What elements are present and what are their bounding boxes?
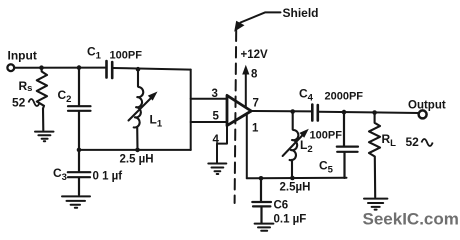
svg-text:Shield: Shield [283,6,319,20]
svg-text:C5: C5 [319,159,334,176]
svg-text:2.5 µH: 2.5 µH [120,154,154,166]
node L1 tap [136,67,141,72]
shield leader arrowhead [234,21,244,32]
capacitor C2 [68,68,91,150]
wire C4 to output terminal [319,112,419,113]
ground (C3) [62,196,90,207]
svg-text:C6: C6 [274,200,289,212]
capacitor C4 [312,105,318,121]
node RL top [372,110,377,115]
ohm squiggle (Rs) [29,99,40,106]
capacitor C5 [337,112,358,178]
pin8 arrowhead [242,65,249,75]
capacitor C6 [252,178,271,222]
shield dashed line [235,31,237,204]
svg-text:0 1 µf: 0 1 µf [93,171,123,183]
svg-text:Output: Output [408,100,446,112]
capacitor C1 [107,61,113,78]
node C3 top [77,148,82,153]
wire pin4 [217,126,227,163]
inductor L2 [290,112,299,179]
wire pin5 [191,121,227,123]
svg-text:52: 52 [12,96,26,110]
input terminal [7,64,14,71]
node L1 bottom [135,148,140,153]
svg-text:SeekIC.com: SeekIC.com [363,210,459,229]
svg-text:C3: C3 [53,166,67,183]
shield leader line [238,12,281,27]
capacitor C3 [68,150,91,195]
L2 arrow [283,133,305,156]
svg-text:C2: C2 [58,88,72,105]
svg-text:0.1 µF: 0.1 µF [274,214,307,226]
svg-text:7: 7 [253,98,259,110]
output terminal [419,110,427,118]
svg-text:1: 1 [252,123,259,135]
node input junction [39,65,44,70]
wire left rail [79,149,191,151]
ground (pin4) [208,164,226,175]
svg-text:100PF: 100PF [110,50,143,62]
ground (RL) [364,199,387,210]
svg-text:C1: C1 [87,45,102,62]
wire C1 to bend [113,68,191,70]
resistor RL [369,113,380,198]
svg-text:+12V: +12V [241,49,269,61]
ground (C6) [255,224,274,231]
svg-text:3: 3 [212,88,218,100]
svg-text:8: 8 [251,69,258,81]
L1 arrow [129,97,153,121]
svg-text:Rs: Rs [19,79,33,94]
wire pin3 [191,98,227,100]
svg-text:100PF: 100PF [310,130,343,142]
resistor Rs [37,68,47,131]
svg-text:2000PF: 2000PF [325,91,364,103]
wire pin1 down [246,113,248,178]
node C2 tap [77,65,82,70]
node L2 bottom [290,176,295,181]
svg-text:Input: Input [8,49,37,63]
node L2 tap [290,109,295,114]
svg-text:2.5µH: 2.5µH [280,182,311,194]
inductor L1 [134,69,144,149]
ohm squiggle (RL) [422,139,433,146]
svg-text:RL: RL [382,132,397,149]
wire bottom rail [247,177,347,180]
wire vertical bend to rail [190,70,192,150]
svg-text:C4: C4 [299,87,314,104]
ground (Rs) [35,132,54,142]
node C6 tap [259,176,264,181]
svg-text:52: 52 [406,135,420,149]
svg-text:4: 4 [213,134,220,146]
wire input to C1 [14,67,105,69]
wire pin8 +12V [245,71,247,108]
node C5 top [342,110,347,115]
svg-text:5: 5 [213,111,220,123]
op-amp U1 [227,95,251,125]
svg-text:L1: L1 [150,113,163,130]
wire output from op-amp [251,110,311,112]
